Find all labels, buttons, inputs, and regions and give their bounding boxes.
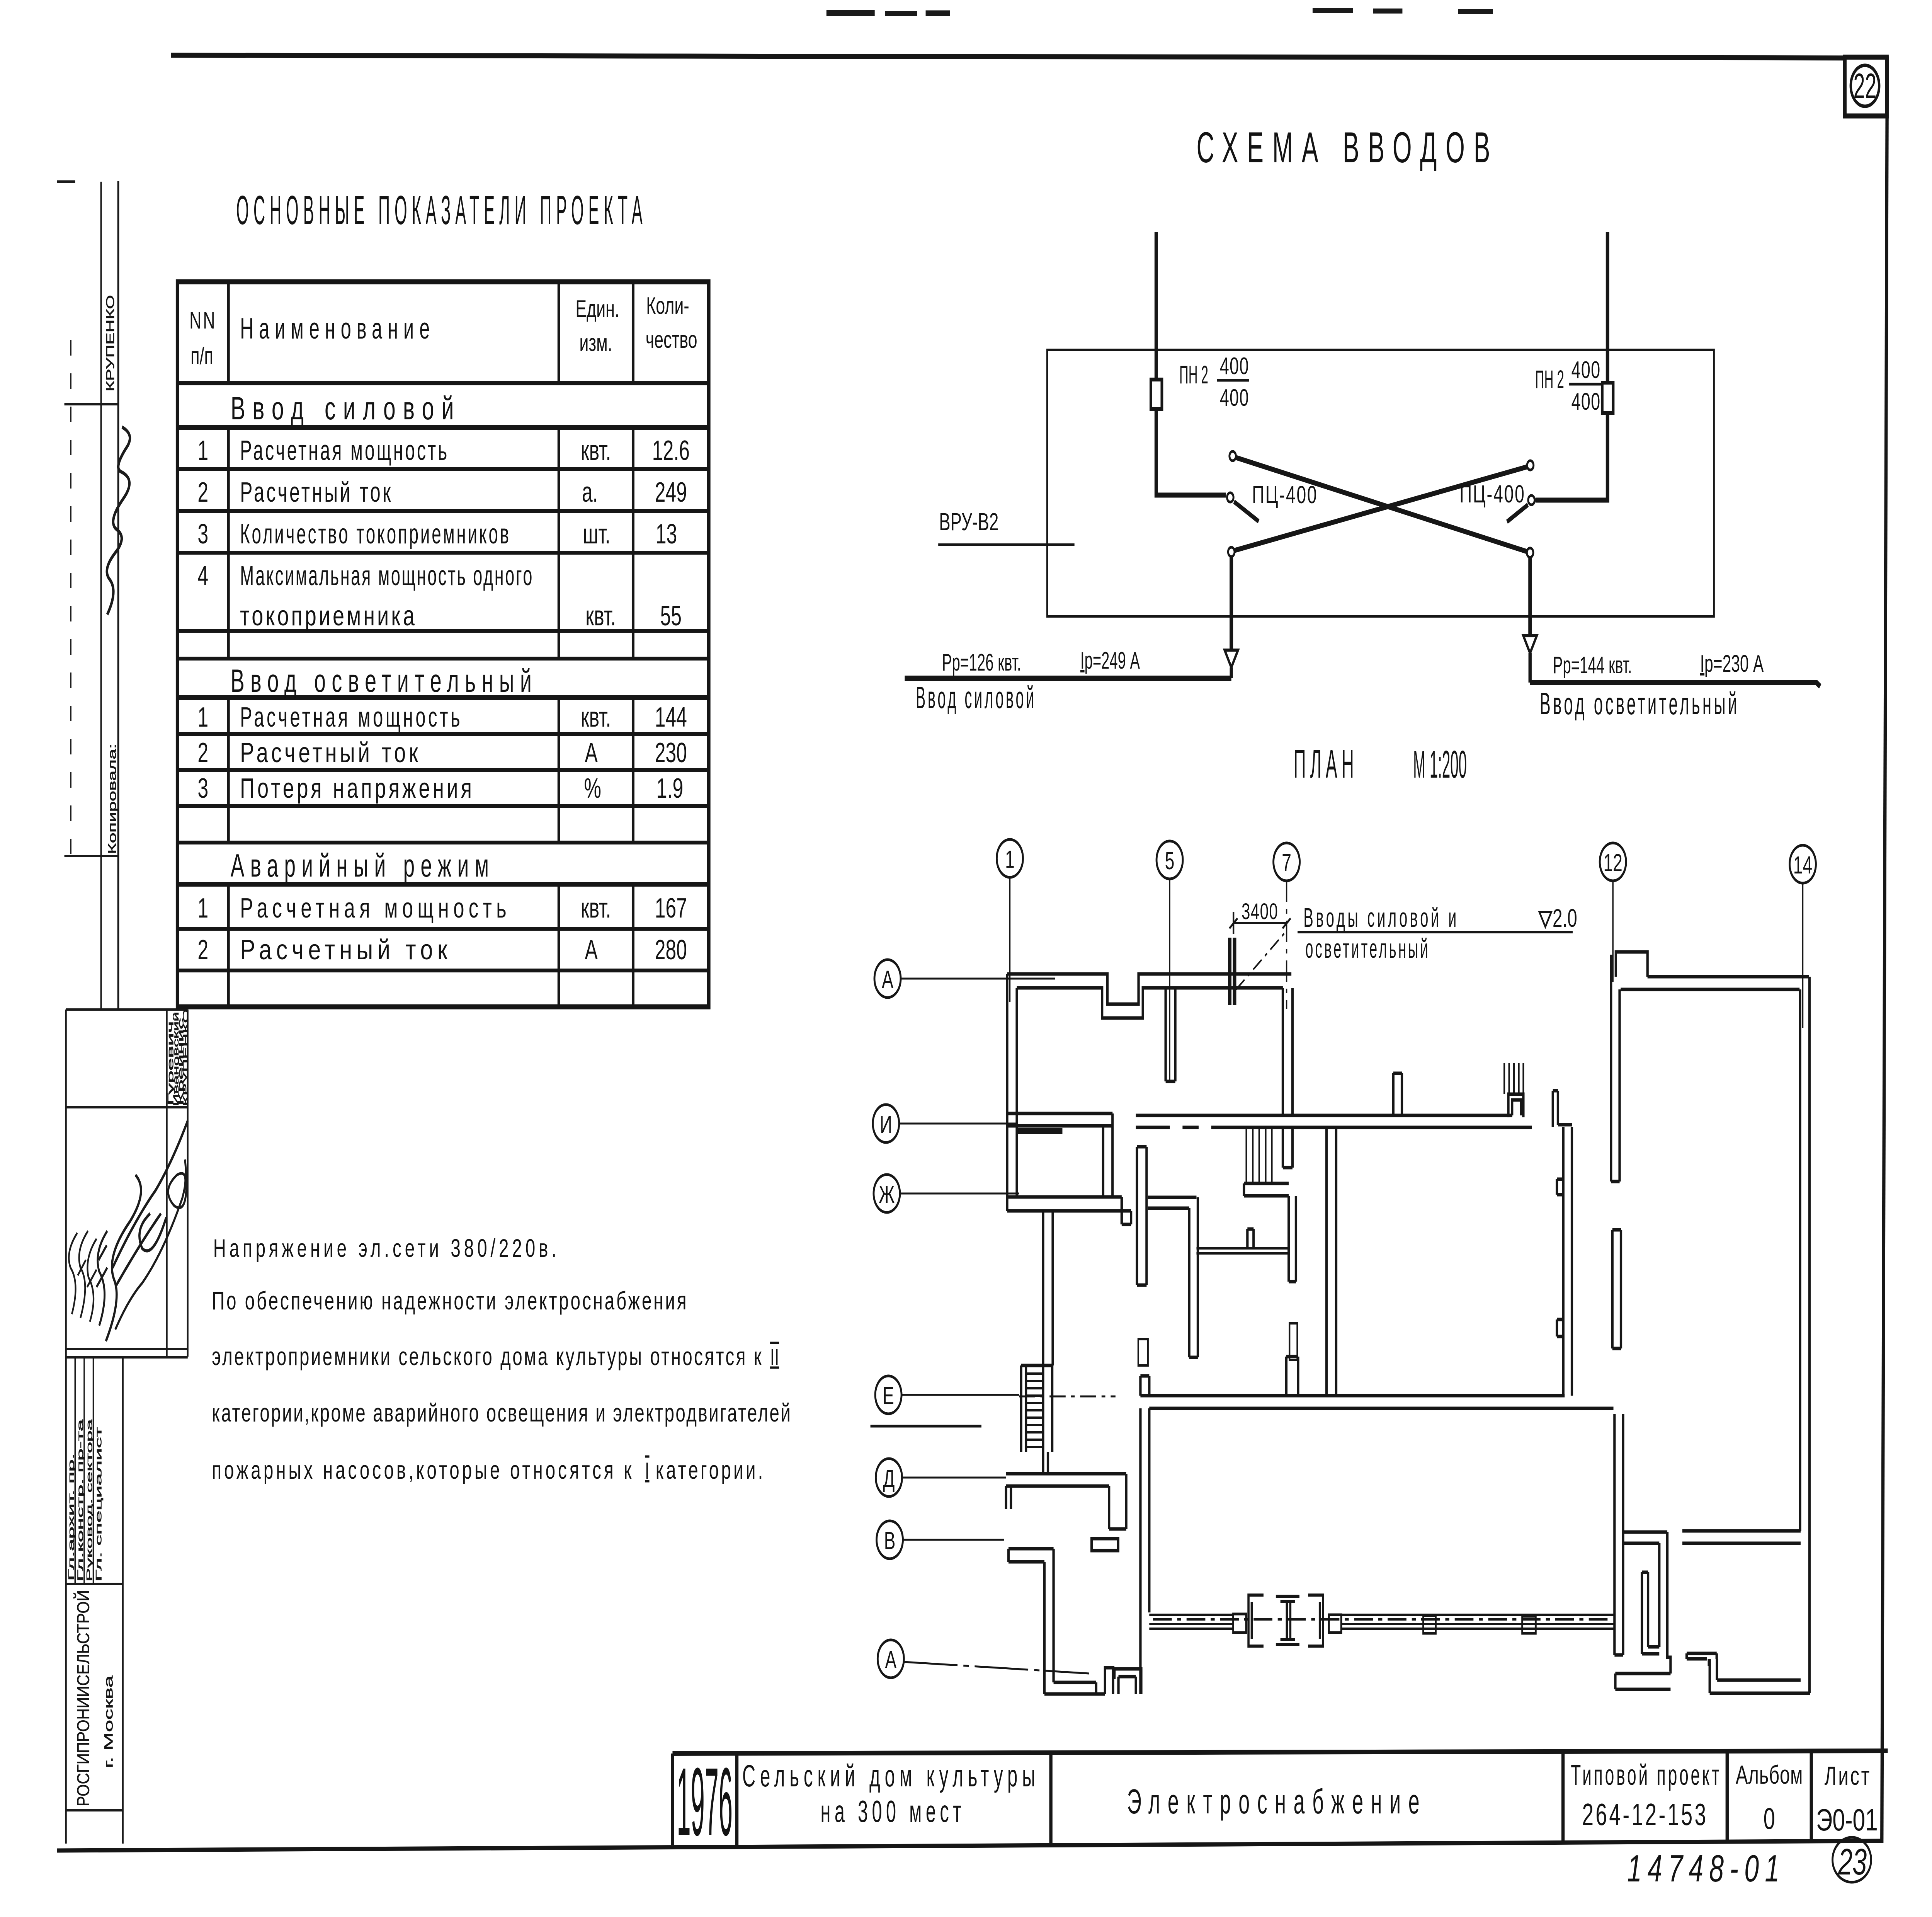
svg-text:12.6: 12.6	[652, 435, 690, 466]
expansion joint channel left	[1248, 1595, 1264, 1646]
grid circle col 5	[1156, 841, 1183, 879]
grid leader row I	[899, 1123, 1016, 1125]
svg-text:Д: Д	[883, 1464, 895, 1492]
top-right wing parapet	[1616, 952, 1648, 977]
section rows silovoy	[197, 435, 689, 632]
leader line VRU-V2	[938, 543, 1075, 546]
switch S1 left: lower contact node	[1228, 547, 1235, 557]
svg-text:А: А	[885, 1646, 897, 1674]
svg-text:Руковод. сектора: Руковод. сектора	[85, 1419, 94, 1582]
top-right wing top wall	[1621, 977, 1809, 989]
pier rect b	[1289, 1323, 1297, 1360]
svg-text:1: 1	[1005, 845, 1015, 873]
svg-text:22: 22	[1854, 66, 1877, 106]
svg-text:400: 400	[1571, 357, 1601, 383]
wall row I top-left block	[1007, 1113, 1113, 1197]
grid circle row D	[876, 1459, 902, 1496]
svg-text:шт.: шт.	[583, 519, 610, 550]
svg-text:264-12-153: 264-12-153	[1582, 1797, 1708, 1832]
svg-text:1: 1	[197, 702, 208, 733]
svg-text:квт.: квт.	[581, 893, 611, 924]
svg-text:2: 2	[197, 935, 208, 965]
grid circle row Zh	[874, 1175, 900, 1212]
backstage room right wall	[1659, 1532, 1670, 1674]
bus line Vvod silovoy	[905, 676, 1231, 681]
svg-text:280: 280	[655, 935, 687, 965]
svg-text:Наименование: Наименование	[240, 312, 435, 345]
wire left output down	[1229, 557, 1234, 649]
wire left arrow to bus	[1229, 667, 1234, 678]
svg-text:категории,кроме аварийного осв: категории,кроме аварийного освещения и э…	[212, 1399, 791, 1427]
svg-text:Ввод силовой: Ввод силовой	[916, 680, 1036, 715]
svg-text:Коли-: Коли-	[646, 293, 689, 319]
wire right output down	[1527, 557, 1532, 635]
svg-text:ОСНОВНЫЕ ПОКАЗАТЕЛИ ПРОЕКТА: ОСНОВНЫЕ ПОКАЗАТЕЛИ ПРОЕКТА	[236, 187, 647, 233]
section rows avariyny	[197, 893, 687, 965]
svg-text:Расчетная мощность: Расчетная мощность	[240, 435, 449, 466]
svg-text:12: 12	[1603, 849, 1622, 877]
svg-text:СХЕМА ВВОДОВ: СХЕМА ВВОДОВ	[1196, 124, 1499, 172]
thick bar under I wall	[1017, 1128, 1063, 1134]
svg-text:230: 230	[655, 737, 687, 768]
PLAN	[871, 839, 1816, 1694]
stair rails	[1021, 1365, 1052, 1452]
right wall col14 outer	[1808, 977, 1811, 1693]
top edge scan specks	[827, 8, 1493, 16]
wall col12 piece	[1611, 955, 1619, 1182]
svg-text:Ввод осветительный: Ввод осветительный	[231, 663, 538, 699]
section rows osvetitelny	[197, 702, 687, 804]
svg-text:1: 1	[197, 893, 208, 924]
small square room east	[1509, 1094, 1524, 1117]
svg-text:249: 249	[655, 477, 687, 508]
svg-text:%: %	[584, 773, 601, 804]
wall row I central	[1136, 1115, 1532, 1127]
hall left wall top stub	[1140, 1376, 1149, 1396]
window mullion c	[1423, 1616, 1436, 1633]
TABLE	[177, 187, 790, 1485]
svg-text:Расчетный ток: Расчетный ток	[240, 737, 421, 768]
window band axis dash-dot	[1153, 1618, 1612, 1621]
svg-text:167: 167	[655, 893, 687, 924]
svg-text:2: 2	[197, 477, 208, 508]
wall col12 lower segment	[1612, 1230, 1621, 1348]
svg-text:1976: 1976	[677, 1747, 733, 1856]
svg-text:2.0: 2.0	[1553, 904, 1577, 933]
svg-text:1: 1	[197, 435, 208, 466]
corridor wall x4965	[1327, 1127, 1336, 1396]
wall below upper stair	[1289, 1196, 1296, 1282]
central wall x5846	[1558, 1125, 1572, 1396]
svg-text:2: 2	[197, 737, 208, 768]
copier signature scribble	[107, 427, 130, 615]
table row lines	[177, 381, 709, 385]
grid circle row A bottom	[878, 1640, 904, 1678]
page number circle 22	[1851, 65, 1879, 106]
grid leader row V	[903, 1539, 1004, 1541]
svg-text:II: II	[770, 1344, 779, 1370]
crossover line upper-left to lower-right	[1236, 458, 1527, 552]
svg-text:токоприемника: токоприемника	[240, 601, 417, 632]
top border line	[171, 55, 1845, 58]
window mullion a	[1233, 1614, 1246, 1633]
switch S2 right: mid contact	[1528, 495, 1535, 505]
partition x4258	[1137, 1147, 1146, 1285]
svg-text:квт.: квт.	[581, 702, 611, 733]
svg-text:а.: а.	[582, 477, 598, 508]
svg-text:квт.: квт.	[581, 435, 611, 466]
window mullion b	[1329, 1615, 1341, 1633]
svg-text:И: И	[880, 1110, 892, 1138]
right border line	[1882, 56, 1887, 1843]
svg-text:электроприемники сельского дом: электроприемники сельского дома культуры…	[212, 1343, 762, 1371]
grid circle row I	[873, 1105, 899, 1142]
svg-text:на 300 мест: на 300 мест	[821, 1794, 966, 1828]
svg-text:А: А	[585, 935, 598, 965]
wire left fuse to switch	[1156, 409, 1226, 495]
wall stub col5	[1166, 988, 1175, 1081]
switch S2 right: upper contact	[1527, 461, 1534, 470]
svg-text:400: 400	[1220, 353, 1249, 380]
switch S1 left: mid contact	[1227, 493, 1234, 502]
grid line col 1	[1009, 877, 1011, 1002]
cable entry dash-dot leader	[1236, 931, 1286, 989]
cabinet box VRU-V2	[1047, 350, 1714, 616]
stamp lower block borders	[66, 1008, 188, 1011]
backstage bottom bar	[1615, 1674, 1670, 1689]
STAMP	[57, 181, 190, 1844]
grid leader row D	[902, 1477, 1006, 1479]
svg-text:Гл. специалист: Гл. специалист	[95, 1427, 104, 1582]
wire right arrow to bus	[1528, 653, 1532, 683]
svg-text:5: 5	[1165, 847, 1175, 875]
wall left col1 inner	[1015, 988, 1019, 1197]
wall row D	[1006, 1474, 1126, 1529]
svg-text:4: 4	[197, 560, 208, 591]
svg-text:23: 23	[1838, 1841, 1867, 1883]
svg-text:Расчетный ток: Расчетный ток	[240, 935, 452, 965]
grid circle col 7	[1274, 843, 1300, 881]
wall top A inner	[1017, 988, 1283, 1018]
svg-text:ПН 2: ПН 2	[1179, 361, 1208, 389]
switch S1 left: blade	[1234, 502, 1259, 521]
wall row V	[1009, 1549, 1054, 1562]
room wall G shape	[1148, 1197, 1198, 1357]
hall left wall	[1140, 1408, 1149, 1694]
expansion joint I-beam	[1276, 1596, 1299, 1645]
hook below D wall	[1092, 1539, 1118, 1551]
grid leader row E dash-dot	[1019, 1396, 1116, 1398]
svg-text:1.9: 1.9	[656, 773, 683, 804]
underline mark below E	[871, 1425, 981, 1428]
svg-text:квт.: квт.	[585, 601, 616, 632]
wall stub col7 below I	[1283, 1127, 1293, 1168]
svg-text:категории.: категории.	[656, 1456, 763, 1485]
svg-text:0: 0	[1764, 1802, 1775, 1835]
svg-text:КРУПЕНКО: КРУПЕНКО	[104, 295, 116, 392]
bottom-right room left step	[1687, 1653, 1717, 1693]
bus line Vvod osvetitelny	[1530, 683, 1820, 686]
page number box	[1845, 57, 1887, 116]
exterior stair hatch east	[1504, 1063, 1523, 1096]
wall top A outer with notch	[1007, 974, 1292, 1004]
grid circle col 14	[1790, 845, 1816, 883]
svg-text:55: 55	[660, 601, 682, 632]
svg-text:Расчетная мощность: Расчетная мощность	[240, 702, 463, 733]
wall below stair	[1043, 1452, 1048, 1474]
wall corridor vertical below Zh	[1043, 1211, 1053, 1365]
expansion joint channel right	[1308, 1595, 1323, 1646]
upper stair bottom bar	[1244, 1183, 1289, 1196]
svg-text:3400: 3400	[1242, 899, 1278, 924]
svg-text:3: 3	[197, 519, 208, 550]
arrow right output	[1523, 636, 1537, 653]
backstage hook	[1642, 1572, 1659, 1654]
vestibule bottom wall	[1044, 1682, 1105, 1694]
svg-text:Лист: Лист	[1825, 1762, 1870, 1791]
grid circle col 1	[997, 839, 1023, 877]
svg-text:Напряжение эл.сети 380/220в.: Напряжение эл.сети 380/220в.	[213, 1234, 556, 1263]
svg-text:КРУПЕНКО: КРУПЕНКО	[182, 1009, 190, 1106]
svg-text:Iр=249 А: Iр=249 А	[1080, 647, 1140, 674]
bottom-right room bottom wall	[1710, 1680, 1810, 1693]
svg-text:Ввод силовой: Ввод силовой	[231, 391, 461, 427]
switch S1 left: upper contact	[1230, 451, 1236, 461]
svg-text:7: 7	[1282, 849, 1291, 877]
central wall tabs	[1557, 1179, 1563, 1336]
svg-text:ВРУ-В2: ВРУ-В2	[939, 508, 998, 536]
window mullion d	[1522, 1616, 1536, 1633]
title block top line	[672, 1751, 1888, 1754]
title block cell dividers	[672, 1752, 1811, 1845]
svg-text:Гл.архит. пр.: Гл.архит. пр.	[67, 1453, 76, 1581]
svg-text:14: 14	[1793, 851, 1812, 879]
svg-text:400: 400	[1220, 385, 1249, 411]
svg-text:Вводы силовой и: Вводы силовой и	[1303, 902, 1459, 933]
svg-text:М 1:200: М 1:200	[1413, 743, 1467, 787]
wire right feeder incoming	[1605, 232, 1610, 383]
svg-text:ПЦ-400: ПЦ-400	[1459, 480, 1525, 508]
grid circle row V	[877, 1521, 903, 1559]
svg-text:Типовой проект: Типовой проект	[1571, 1759, 1721, 1791]
bump on thin wall	[1247, 1229, 1253, 1248]
svg-text:Ввод осветительный: Ввод осветительный	[1540, 686, 1740, 721]
notes paragraph	[212, 1234, 791, 1485]
svg-text:изм.: изм.	[579, 330, 612, 356]
wire right fuse to switch	[1536, 413, 1608, 500]
svg-text:Iр=230 А: Iр=230 А	[1700, 650, 1764, 677]
svg-text:Аварийный режим: Аварийный режим	[231, 848, 495, 884]
svg-text:400: 400	[1571, 388, 1601, 415]
switch S2 right: lower contact node	[1527, 548, 1533, 557]
svg-text:I: I	[645, 1457, 650, 1483]
svg-text:В: В	[884, 1527, 896, 1554]
crossover line lower-left to upper-right	[1235, 467, 1527, 550]
svg-text:144: 144	[655, 702, 687, 733]
thin wall y3236	[1196, 1248, 1289, 1253]
grid leader row A	[901, 978, 1055, 980]
cable entry double tick	[1230, 938, 1235, 1005]
pier on hall top wall	[1286, 1357, 1298, 1396]
fuse F2 PN2 400/400 right	[1602, 383, 1613, 413]
svg-text:Максимальная мощность одного: Максимальная мощность одного	[240, 560, 534, 591]
svg-text:Копировала:: Копировала:	[105, 744, 118, 854]
svg-text:чество: чество	[646, 327, 697, 353]
svg-text:А: А	[882, 965, 893, 993]
svg-text:Расчетная мощность: Расчетная мощность	[240, 893, 511, 924]
window band lines	[1149, 1615, 1614, 1629]
svg-text:Гл.констр. пр-та: Гл.констр. пр-та	[76, 1419, 85, 1582]
svg-text:Един.: Един.	[575, 296, 619, 322]
small pier above I wall	[1393, 1073, 1402, 1115]
svg-text:14748-01: 14748-01	[1627, 1847, 1785, 1890]
switch S2 right: blade	[1507, 505, 1528, 522]
svg-text:3: 3	[197, 773, 208, 804]
hall top wall	[1140, 1396, 1613, 1408]
wall left col1 outer	[1005, 974, 1009, 1211]
svg-text:ПЛАН: ПЛАН	[1294, 741, 1358, 786]
grid leader row E	[901, 1394, 1019, 1396]
hall right wall	[1614, 1414, 1623, 1655]
TITLEBLOCK	[672, 1747, 1888, 1889]
svg-text:п/п: п/п	[190, 343, 213, 369]
bottom border line	[57, 1841, 1883, 1851]
bottom-right room top wall	[1682, 1531, 1801, 1543]
svg-text:Рр=126 квт.: Рр=126 квт.	[942, 649, 1021, 676]
svg-text:13: 13	[656, 519, 677, 550]
svg-text:Альбом: Альбом	[1736, 1760, 1803, 1790]
grid leader row A bottom	[904, 1662, 1089, 1674]
fuse F1 PN2 400/400 left	[1151, 380, 1162, 409]
vestibule left wall	[1044, 1549, 1054, 1694]
vestibule step	[1105, 1668, 1114, 1694]
table column lines	[226, 282, 230, 1007]
vestibule pillar	[1113, 1669, 1141, 1694]
svg-text:Сельский дом культуры: Сельский дом культуры	[742, 1759, 1040, 1793]
table header texts	[189, 293, 697, 369]
stair treads	[1026, 1374, 1043, 1447]
svg-text:Рр=144 квт.: Рр=144 квт.	[1553, 652, 1632, 679]
backstage room top wall	[1622, 1532, 1667, 1543]
table outer border	[177, 282, 709, 1007]
grid circle col 12	[1600, 843, 1626, 881]
stamp upper column lines	[100, 182, 102, 1010]
grid circle row E	[875, 1376, 901, 1414]
leader line under vvody	[1298, 931, 1573, 933]
svg-text:ПН 2: ПН 2	[1535, 366, 1564, 394]
SCHEMA	[905, 124, 1820, 786]
grid line col 14	[1802, 883, 1804, 1028]
svg-text:Количество токоприемников: Количество токоприемников	[240, 519, 511, 550]
right wall col14 inner	[1798, 989, 1802, 1531]
svg-text:Расчетный ток: Расчетный ток	[240, 477, 393, 508]
grid line col 5	[1169, 879, 1171, 1081]
L piece above central wall	[1553, 1091, 1558, 1127]
dimension line 3400	[1230, 912, 1291, 934]
svg-text:Потеря напряжения: Потеря напряжения	[240, 773, 474, 804]
svg-text:РОСГИПРОНИИСЕЛЬСТРОЙ: РОСГИПРОНИИСЕЛЬСТРОЙ	[73, 1590, 93, 1806]
signatures scribbles	[69, 1233, 77, 1314]
wall row Zh	[1007, 1197, 1131, 1224]
svg-text:NN: NN	[189, 307, 216, 334]
svg-text:Е: Е	[883, 1382, 894, 1410]
pier rect a	[1138, 1339, 1148, 1365]
grid leader row Zh	[900, 1193, 1019, 1195]
svg-text:ПЦ-400: ПЦ-400	[1252, 481, 1318, 509]
svg-text:Э0-01: Э0-01	[1816, 1803, 1878, 1837]
svg-text:осветительный: осветительный	[1305, 933, 1430, 964]
grid line col 12	[1612, 881, 1614, 982]
grid line col 7	[1286, 881, 1287, 1009]
wire left feeder incoming	[1154, 232, 1159, 380]
svg-text:Электроснабжение: Электроснабжение	[1127, 1783, 1427, 1821]
upper stair hatch lines	[1247, 1127, 1272, 1183]
arrow left output	[1225, 650, 1238, 667]
svg-text:г. Москва: г. Москва	[102, 1675, 115, 1768]
svg-text:А: А	[585, 737, 598, 768]
svg-text:Ж: Ж	[879, 1180, 895, 1208]
grid circle row A top	[874, 960, 901, 998]
wall col7 above I	[1283, 988, 1293, 1115]
